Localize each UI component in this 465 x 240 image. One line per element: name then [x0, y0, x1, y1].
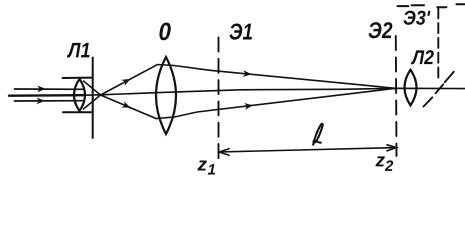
- svg-text:Э3': Э3': [403, 8, 431, 30]
- svg-text:z: z: [374, 150, 385, 171]
- svg-text:1: 1: [207, 161, 215, 178]
- svg-text:2: 2: [384, 158, 394, 175]
- svg-text:0: 0: [159, 18, 172, 46]
- svg-text:Л2: Л2: [410, 47, 434, 69]
- svg-text:Л1: Л1: [66, 39, 90, 62]
- svg-text:z: z: [196, 154, 207, 175]
- svg-text:Э2: Э2: [368, 17, 393, 43]
- svg-text:Э1: Э1: [229, 18, 253, 44]
